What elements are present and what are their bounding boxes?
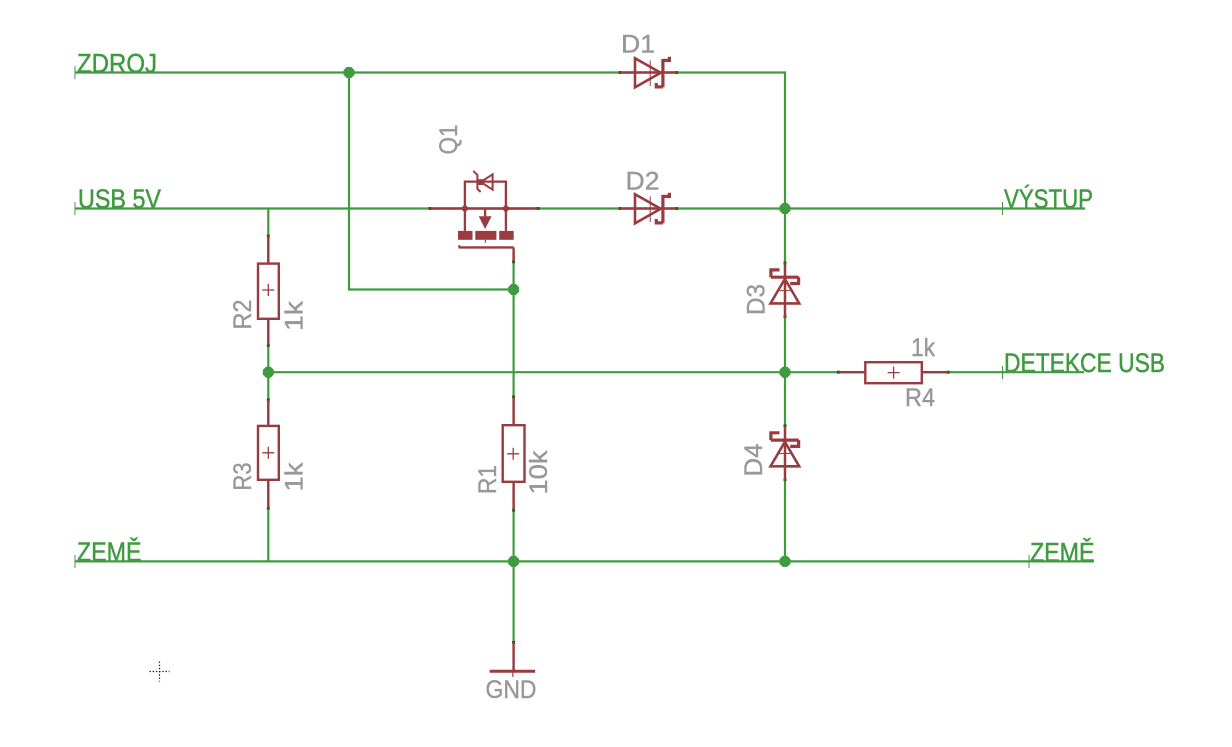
svg-text:USB 5V: USB 5V (78, 184, 161, 214)
svg-text:DETEKCE USB: DETEKCE USB (1004, 348, 1165, 378)
svg-text:ZEMĚ: ZEMĚ (77, 536, 142, 567)
svg-text:R1: R1 (474, 465, 502, 494)
svg-text:R2: R2 (229, 300, 257, 330)
svg-text:Q1: Q1 (435, 125, 463, 155)
svg-text:R3: R3 (229, 463, 257, 491)
svg-text:ZDROJ: ZDROJ (77, 49, 157, 79)
svg-text:1k: 1k (911, 334, 935, 362)
svg-text:VÝSTUP: VÝSTUP (1004, 184, 1093, 214)
svg-text:D4: D4 (740, 443, 768, 476)
svg-text:GND: GND (486, 676, 537, 704)
svg-text:1k: 1k (281, 300, 309, 331)
svg-text:D3: D3 (743, 284, 771, 315)
svg-text:ZEMĚ: ZEMĚ (1030, 537, 1095, 568)
svg-text:D2: D2 (626, 168, 660, 196)
svg-text:1k: 1k (281, 462, 309, 492)
svg-text:R4: R4 (905, 384, 935, 412)
svg-text:10k: 10k (525, 450, 553, 495)
svg-text:D1: D1 (621, 31, 655, 59)
